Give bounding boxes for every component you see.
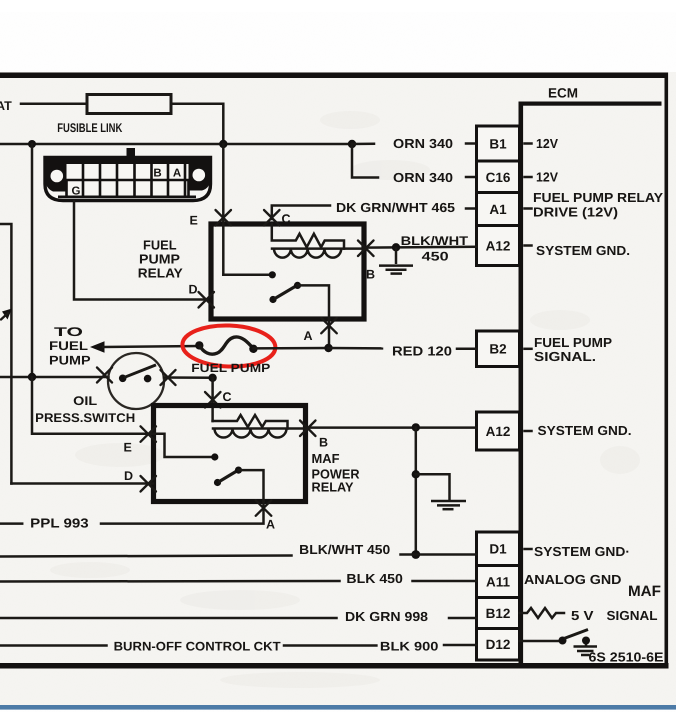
junction node on MAF B wire bbox=[412, 423, 420, 431]
wire A down to fuel pump feed bbox=[328, 319, 331, 348]
riser from MAF B wire to D1 wire bbox=[415, 428, 418, 555]
svg-text:ORN 340: ORN 340 bbox=[393, 136, 453, 151]
svg-text:MAF: MAF bbox=[312, 451, 340, 466]
svg-text:B12: B12 bbox=[486, 606, 511, 621]
svg-text:D: D bbox=[124, 469, 133, 483]
terminal arrows left of oil switch bbox=[97, 368, 112, 383]
svg-text:SIGNAL.: SIGNAL. bbox=[534, 349, 596, 364]
svg-text:C: C bbox=[282, 212, 291, 226]
stub right of A12 second bbox=[525, 430, 532, 433]
svg-text:BLK 900: BLK 900 bbox=[380, 639, 439, 653]
wire RED 120 left segment bbox=[329, 347, 383, 350]
far left riser (off-page feed) bbox=[0, 224, 11, 484]
pin B2 bbox=[477, 331, 520, 367]
wire PPL 993 left segment bbox=[0, 522, 22, 525]
wire arrow to pump node bbox=[103, 346, 199, 347]
fusible link F1 bbox=[87, 95, 171, 114]
wire fusible link to corner bbox=[171, 104, 223, 144]
wire E down from bus bbox=[222, 144, 225, 275]
junction node at left riser bbox=[28, 140, 36, 148]
wire to MAF D bbox=[11, 482, 153, 485]
oil switch feed wire bbox=[0, 376, 109, 379]
svg-text:6S 2510-6E: 6S 2510-6E bbox=[589, 650, 664, 665]
label MAF POWER RELAY bbox=[312, 451, 361, 495]
scan smudges bbox=[50, 111, 640, 688]
pin B12 bbox=[477, 598, 520, 629]
wire BLK/WHT 450 right segment to D1 bbox=[401, 553, 477, 556]
svg-text:SIGNAL: SIGNAL bbox=[607, 608, 658, 623]
ground at relay B bbox=[379, 247, 413, 273]
svg-text:FUEL PUMP RELAY: FUEL PUMP RELAY bbox=[533, 190, 663, 205]
junction node MAF C bbox=[208, 374, 216, 382]
wire DK GRN 998 left segment bbox=[0, 617, 337, 620]
wire ORN 340 to B1 bbox=[352, 143, 374, 146]
svg-text:A1: A1 bbox=[489, 202, 507, 217]
relay switch arm bbox=[274, 285, 297, 299]
pin A11 bbox=[477, 566, 520, 598]
wire branch down to C16 level bbox=[352, 144, 378, 178]
terminal E arrows bbox=[216, 210, 232, 226]
pin A12 bbox=[477, 226, 520, 266]
terminal arrows right of oil switch bbox=[161, 370, 176, 385]
terminal D arrows MAF bbox=[141, 476, 157, 492]
svg-text:G: G bbox=[72, 186, 81, 198]
svg-text:ORN 340: ORN 340 bbox=[393, 170, 453, 185]
pin B1 bbox=[477, 126, 520, 161]
terminal A arrows bbox=[321, 318, 337, 334]
svg-text:FUSIBLE LINK: FUSIBLE LINK bbox=[57, 121, 122, 135]
svg-text:PPL 993: PPL 993 bbox=[30, 516, 88, 531]
wire RED 120 to B2 bbox=[457, 348, 477, 351]
svg-text:B2: B2 bbox=[489, 342, 506, 357]
wire AT to fusible link bbox=[21, 103, 87, 106]
svg-text:12V: 12V bbox=[536, 170, 558, 185]
svg-text:A12: A12 bbox=[486, 238, 511, 253]
top border line bbox=[0, 73, 668, 79]
svg-text:DK GRN 998: DK GRN 998 bbox=[345, 609, 428, 624]
wire connector G down to relay D bbox=[74, 201, 208, 300]
oil switch lever bbox=[124, 365, 156, 378]
fuel pump inline node right bbox=[249, 345, 257, 353]
svg-text:12V: 12V bbox=[536, 136, 558, 151]
label FUEL PUMP RELAY bbox=[138, 237, 183, 280]
wire pump to relay A junction bbox=[253, 347, 329, 350]
svg-text:D12: D12 bbox=[486, 637, 511, 652]
contact node bbox=[269, 271, 276, 278]
ground branch wire bbox=[416, 474, 450, 499]
junction node ground branch bbox=[412, 470, 420, 478]
terminal A arrows MAF bbox=[256, 500, 272, 516]
MAF D contact node bbox=[214, 479, 221, 486]
svg-text:D1: D1 bbox=[489, 542, 507, 557]
svg-text:D: D bbox=[189, 283, 198, 297]
svg-text:RED 120: RED 120 bbox=[392, 343, 452, 358]
svg-text:OIL: OIL bbox=[73, 394, 97, 408]
MAF coil scallops bbox=[213, 429, 305, 438]
wire arm to A drop MAF bbox=[239, 470, 264, 501]
oil switch contact right bbox=[144, 375, 152, 383]
svg-text:450: 450 bbox=[422, 250, 449, 264]
terminal D arrows bbox=[199, 292, 215, 308]
MAF arm node bbox=[235, 467, 242, 474]
pin A12 second bbox=[477, 412, 520, 450]
wire DK GRN/WHT from relay C bbox=[272, 206, 330, 220]
fuel pump squiggle bbox=[199, 337, 253, 354]
wire B to BLK/WHT 450 bbox=[366, 246, 477, 249]
MAF E internal wire bbox=[154, 434, 213, 457]
oil pressure switch circle bbox=[108, 353, 164, 409]
svg-text:BLK/WHT 450: BLK/WHT 450 bbox=[299, 542, 390, 557]
wire oil switch to MAF relay C bbox=[164, 376, 213, 379]
svg-text:BURN-OFF CONTROL CKT: BURN-OFF CONTROL CKT bbox=[114, 640, 281, 654]
svg-text:E: E bbox=[190, 214, 198, 228]
pin C16 bbox=[477, 161, 520, 193]
wire MAF B to A12 second bbox=[308, 426, 477, 429]
svg-text:RELAY: RELAY bbox=[138, 265, 183, 280]
svg-text:BLK 450: BLK 450 bbox=[346, 571, 403, 586]
svg-text:B1: B1 bbox=[489, 136, 507, 151]
terminal C arrows bbox=[264, 210, 280, 226]
ground below switch bbox=[574, 644, 598, 655]
svg-text:PUMP: PUMP bbox=[49, 353, 91, 367]
svg-text:C: C bbox=[223, 390, 232, 404]
svg-text:MAF: MAF bbox=[628, 583, 661, 600]
svg-text:5 V: 5 V bbox=[571, 608, 594, 623]
wire BLK 450 left segment bbox=[0, 580, 340, 583]
svg-text:B: B bbox=[153, 167, 161, 179]
svg-text:FUEL: FUEL bbox=[143, 237, 177, 252]
svg-text:FUEL: FUEL bbox=[49, 339, 88, 353]
switch contact dot left bbox=[559, 637, 567, 645]
stub left of B1 bbox=[466, 142, 474, 145]
MAF switch arm bbox=[219, 470, 239, 482]
ECM top line bbox=[519, 102, 662, 106]
main feed wire (horizontal bus) bbox=[0, 143, 352, 146]
pin D12 bbox=[477, 629, 520, 661]
junction node relay A / RED 120 bbox=[324, 344, 332, 352]
terminal B arrows bbox=[358, 241, 374, 257]
switch contact dot right bbox=[582, 637, 590, 645]
connector C100 bbox=[45, 148, 211, 201]
wire BLK 900 to D12 bbox=[444, 644, 477, 647]
wire BURN-OFF left segment bbox=[0, 644, 107, 647]
svg-text:C16: C16 bbox=[486, 170, 511, 185]
junction node left riser / oil switch bbox=[28, 373, 36, 381]
pin D1 bbox=[477, 532, 520, 566]
svg-text:BLK/WHT: BLK/WHT bbox=[401, 234, 469, 248]
svg-text:DK GRN/WHT 465: DK GRN/WHT 465 bbox=[336, 200, 455, 215]
bottom blue strip bbox=[0, 705, 676, 710]
wire DK GRN 998 right segment to B12 bbox=[449, 617, 477, 620]
relay switch: D contact node bbox=[269, 296, 276, 303]
svg-text:RELAY: RELAY bbox=[312, 480, 354, 495]
arm node bbox=[294, 282, 301, 289]
terminal E arrows MAF bbox=[141, 426, 157, 442]
svg-text:A12: A12 bbox=[486, 424, 511, 439]
arrow to fuel pump bbox=[90, 341, 105, 352]
label TO FUEL PUMP bbox=[49, 325, 91, 367]
svg-text:A11: A11 bbox=[486, 574, 511, 589]
stub right of B1 bbox=[525, 142, 532, 145]
stub left of C16 bbox=[466, 176, 474, 179]
coil scallops bbox=[272, 249, 364, 258]
svg-text:ECM: ECM bbox=[548, 86, 578, 101]
svg-text:TO: TO bbox=[54, 325, 83, 339]
junction node fusible link bbox=[219, 140, 227, 148]
stub right of A12 bbox=[525, 244, 532, 247]
svg-text:SYSTEM GND.: SYSTEM GND. bbox=[536, 243, 630, 258]
svg-text:PUMP: PUMP bbox=[139, 252, 180, 267]
MAF contact node bbox=[211, 453, 218, 460]
terminal B arrows MAF bbox=[300, 421, 316, 437]
relay coil (C to B) bbox=[272, 224, 344, 249]
pin A1 bbox=[477, 193, 520, 226]
svg-text:E: E bbox=[124, 441, 132, 455]
ECM left line bbox=[519, 102, 524, 664]
MAF relay coil C to B bbox=[213, 415, 288, 429]
stub right of A1 bbox=[525, 207, 532, 210]
left riser from bus to oil switch bbox=[31, 144, 34, 377]
oil switch contact left bbox=[119, 375, 127, 383]
terminal C arrows MAF bbox=[205, 392, 221, 408]
svg-text:B: B bbox=[366, 268, 375, 282]
stub right of B2 bbox=[525, 348, 532, 351]
off-page arrow bbox=[2, 309, 12, 320]
resistor at B12 (5V reference) bbox=[520, 608, 565, 618]
svg-text:SYSTEM GND·: SYSTEM GND· bbox=[534, 544, 630, 559]
red highlight ellipse bbox=[182, 324, 276, 368]
wire arm to A drop bbox=[298, 285, 330, 319]
svg-text:B: B bbox=[319, 436, 328, 450]
junction node on D1 wire bbox=[411, 550, 420, 559]
svg-text:ANALOG GND: ANALOG GND bbox=[524, 572, 622, 587]
svg-text:A: A bbox=[173, 167, 181, 179]
svg-text:A: A bbox=[266, 518, 275, 532]
svg-text:PRESS.SWITCH: PRESS.SWITCH bbox=[35, 411, 135, 425]
svg-text:DRIVE (12V): DRIVE (12V) bbox=[533, 204, 618, 219]
right border line bbox=[665, 73, 669, 668]
wire BLK/WHT 450 left segment bbox=[0, 556, 292, 557]
stub right of C16 bbox=[525, 176, 532, 179]
junction node BLK/WHT ground bbox=[392, 243, 400, 251]
ground below MAF branch bbox=[431, 501, 466, 509]
wire E internal to switch contact bbox=[223, 274, 270, 277]
svg-text:FUEL PUMP: FUEL PUMP bbox=[191, 361, 270, 375]
bottom border line bbox=[0, 663, 669, 669]
wire BURN-OFF middle segment bbox=[284, 644, 376, 647]
wire D12 to switch bbox=[520, 640, 561, 643]
wire left riser to MAF E bbox=[32, 377, 153, 434]
stub right of D1 bbox=[525, 548, 532, 551]
svg-text:SYSTEM GND.: SYSTEM GND. bbox=[538, 423, 632, 438]
fuel pump relay K1 box bbox=[211, 224, 364, 319]
svg-text:A: A bbox=[304, 329, 313, 343]
switch lever bbox=[564, 630, 588, 639]
wire MAF A down to PPL 993 bbox=[101, 502, 264, 524]
svg-text:AT: AT bbox=[0, 99, 12, 113]
stub left of A1 bbox=[466, 207, 474, 210]
wire down to MAF relay C bbox=[211, 378, 214, 421]
wire BLK 450 right segment to A11 bbox=[413, 580, 477, 583]
junction node ORN branch bbox=[348, 140, 356, 148]
MAF power relay K2 box bbox=[154, 406, 306, 502]
fuel pump inline node left bbox=[195, 341, 203, 349]
